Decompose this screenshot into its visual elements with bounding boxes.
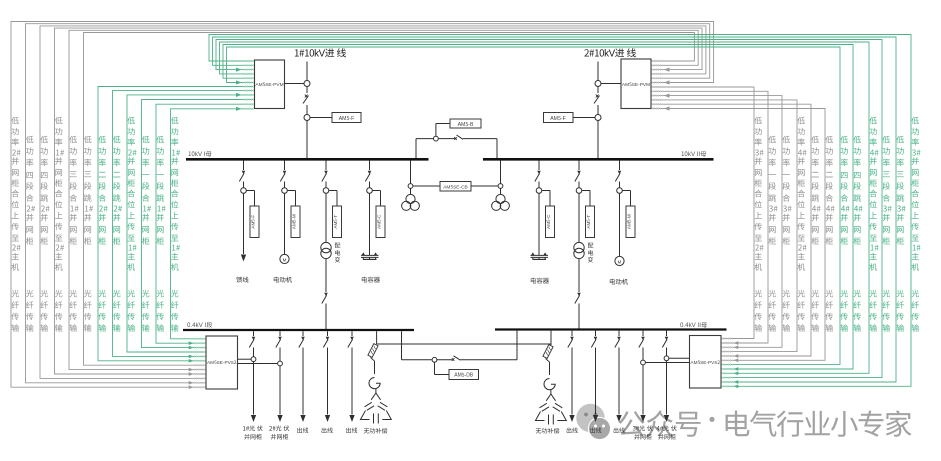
watermark icon bubbles xyxy=(576,404,611,440)
wire net 低功率3#并网柜合位上传至1#主机 xyxy=(209,35,911,389)
svg-text:2#10kV进 线: 2#10kV进 线 xyxy=(584,46,637,60)
bus tie breaker 0.4kV + relay AM5-DB xyxy=(402,331,518,380)
svg-text:AM5SE-PVM: AM5SE-PVM xyxy=(255,81,283,88)
wire with outgoing arrow xyxy=(640,348,645,423)
wire incoming line 2 xyxy=(597,62,599,159)
svg-text:AM5SE-PVS2: AM5SE-PVS2 xyxy=(691,360,721,366)
wire down xyxy=(538,193,540,206)
wire net 低功率二段跳2#并网柜 xyxy=(113,91,254,359)
svg-text:变: 变 xyxy=(588,255,594,264)
wire net 低功率三段跳3#并网柜 xyxy=(213,37,897,384)
feeder 出线 (0.4kV outgoing) xyxy=(346,331,358,434)
CT circle on incoming 2 xyxy=(595,81,621,87)
wire net 低功率一段跳3#并网柜 xyxy=(653,91,769,345)
wire from bus xyxy=(325,161,327,171)
watermark text 公众号·电气行业小专家 xyxy=(617,401,912,444)
breaker QF1 on incoming 1 xyxy=(303,93,311,105)
breaker (moulded case) xyxy=(641,337,645,340)
wire net 低功率2#并网柜合位上传至2#主机 (top run + left drop + bottom run) xyxy=(11,22,714,390)
feeder 出线 (0.4kV outgoing, bus II) xyxy=(590,331,602,435)
net label 低功率一段跳1#并网柜 光纤传输 xyxy=(155,135,166,248)
svg-text:M: M xyxy=(618,259,622,265)
CT junction circle xyxy=(241,188,247,194)
breaker (moulded case) xyxy=(350,337,354,340)
wire from 0.4kV bus xyxy=(666,331,668,336)
net label 低功率2#并网柜合位上传至1#主机 光纤传输 xyxy=(126,116,137,274)
breaker (moulded case) xyxy=(278,337,282,340)
net label 低功率1#并网柜合位上传至2#主机 光纤传输 xyxy=(53,116,64,274)
wire net 低功率二段合2#并网柜 xyxy=(98,87,253,363)
relay box AM5-C xyxy=(372,191,385,238)
relay box AM5-C xyxy=(542,191,555,238)
wire net 低功率1#并网柜合位上传至2#主机 (top run + left drop + bottom run) xyxy=(55,28,703,376)
wire net 低功率四段合2#并网柜 (top run + left drop + bottom run) xyxy=(26,24,710,385)
relay box U1 AM5SE-PVM (1# main) xyxy=(255,60,285,109)
net label 低功率3#并网柜合位上传至1#主机 光纤传输 xyxy=(910,116,921,274)
svg-text:并网柜: 并网柜 xyxy=(658,432,676,441)
relay box AM5-T xyxy=(329,191,342,238)
svg-text:1#10kV进 线: 1#10kV进 线 xyxy=(294,46,347,60)
CT junction circle xyxy=(536,188,542,194)
CT junction circle xyxy=(576,188,582,194)
metering circle + relay AM5-F on incoming 1 xyxy=(304,113,361,123)
net label 低功率3#并网柜合位上传至2#主机 光纤传输 xyxy=(753,116,764,274)
feeder QF6 + capacitor bank C1 电容器 xyxy=(361,161,385,285)
bus tie breaker 10kV + relay AM5-B xyxy=(416,119,497,158)
metering circle + relay AM5-F on incoming 2 xyxy=(544,113,602,123)
net label 低功率一段合3#并网柜 光纤传输 xyxy=(781,135,792,248)
relay box U4 AM5SE-PVS2 (right) xyxy=(690,336,722,389)
net label 低功率四段跳2#并网柜 光纤传输 xyxy=(39,135,50,248)
svg-text:电容器: 电容器 xyxy=(530,276,550,285)
breaker (disconnect switch) xyxy=(239,171,245,188)
svg-text:出线: 出线 xyxy=(346,426,358,435)
wire AM5SE-PVS2 right to 3#/4# PV breakers xyxy=(645,358,689,362)
wire net 低功率四段合4#并网柜 xyxy=(227,47,841,365)
wire down xyxy=(284,193,286,206)
net label 低功率四段跳4#并网柜 光纤传输 xyxy=(852,135,863,248)
net label 低功率一段跳3#并网柜 光纤传输 xyxy=(767,135,778,248)
relay box AM5-F xyxy=(246,191,259,238)
svg-text:·: · xyxy=(700,401,724,436)
wire from 0.4kV bus xyxy=(642,331,644,336)
wire with outgoing arrow xyxy=(664,348,669,423)
wire net 低功率四段跳2#并网柜 (top run + left drop + bottom run) xyxy=(40,26,706,379)
net label 低功率四段合2#并网柜 光纤传输 xyxy=(24,135,35,248)
wire net 低功率3#并网柜合位上传至2#主机 xyxy=(653,87,755,339)
wire with outgoing arrow xyxy=(325,348,330,423)
breaker (moulded case) xyxy=(594,337,598,340)
wire from 0.4kV bus xyxy=(571,331,573,336)
svg-text:无功补偿: 无功补偿 xyxy=(364,426,388,435)
svg-text:0.4kV I段: 0.4kV I段 xyxy=(187,320,212,329)
net label 低功率三段合1#并网柜 光纤传输 xyxy=(68,135,79,248)
net label 低功率二段合2#并网柜 光纤传输 xyxy=(97,135,108,248)
svg-text:电动机: 电动机 xyxy=(609,277,629,286)
feeder QF13 4#光伏并网柜 with junction xyxy=(657,331,677,441)
relay box AM5-M xyxy=(622,191,635,238)
wire net 低功率二段跳4#并网柜 xyxy=(653,104,812,358)
wire from bus xyxy=(243,161,245,171)
net label 低功率三段跳3#并网柜 光纤传输 xyxy=(895,135,906,248)
wire with outgoing arrow xyxy=(251,348,256,423)
wire with outgoing arrow xyxy=(349,348,354,423)
wire AM5SE-PVS2 to 1#/2# PV breakers xyxy=(238,359,278,363)
svg-text:AM5-DB: AM5-DB xyxy=(454,371,474,378)
bus 10kV II xyxy=(483,149,714,159)
wire down xyxy=(369,193,371,206)
svg-text:AM5-T: AM5-T xyxy=(586,215,592,229)
wire with outgoing arrow xyxy=(277,348,282,423)
pin labels AM5SE-PVM U2 right edge xyxy=(652,61,663,109)
net label 低功率三段跳1#并网柜 光纤传输 xyxy=(82,135,93,248)
wire net 低功率三段跳1#并网柜 (top run + left drop + bottom run) xyxy=(84,33,695,366)
wire net 低功率二段合4#并网柜 xyxy=(653,106,826,362)
svg-text:0.4kV II母: 0.4kV II母 xyxy=(680,320,707,329)
svg-text:出线: 出线 xyxy=(613,426,625,435)
wire from 0.4kV bus xyxy=(595,331,597,336)
breaker (moulded case) xyxy=(301,337,305,340)
svg-text:AM5SE-CB: AM5SE-CB xyxy=(443,183,468,190)
wire net 低功率三段合3#并网柜 xyxy=(216,40,882,378)
wire down xyxy=(619,193,621,206)
svg-text:并网柜: 并网柜 xyxy=(634,432,652,441)
svg-text:AM5-T: AM5-T xyxy=(333,215,339,229)
net label 低功率二段跳4#并网柜 光纤传输 xyxy=(810,135,821,248)
breaker (disconnect switch) xyxy=(575,171,581,188)
feeder 出线 (0.4kV outgoing, bus II) xyxy=(613,331,625,435)
svg-text:AM5-C: AM5-C xyxy=(546,214,552,229)
wire down xyxy=(578,193,580,206)
svg-text:10kV II母: 10kV II母 xyxy=(681,149,706,158)
pin labels AM5SE-PVS2 U3 left edge xyxy=(194,339,206,387)
feeder QF7 + capacitor bank C2 电容器 (bus II) xyxy=(530,161,555,286)
svg-text:10kV I母: 10kV I母 xyxy=(188,149,212,158)
svg-text:并网柜: 并网柜 xyxy=(244,432,262,441)
svg-text:AM5-M: AM5-M xyxy=(627,214,633,229)
net label 低功率二段跳2#并网柜 光纤传输 xyxy=(111,135,122,248)
breaker (moulded case) xyxy=(326,337,330,340)
breaker (moulded case) xyxy=(665,337,669,340)
feeder QF9 + motor M2 电动机 (bus II) xyxy=(609,161,635,287)
feeder QF11 2#光伏并网柜 with junction xyxy=(269,331,289,441)
bus 0.4kV II xyxy=(495,320,727,330)
feeder QF3 馈线 (10kV outgoing) xyxy=(236,161,259,285)
net label 低功率四段合4#并网柜 光纤传输 xyxy=(839,135,850,248)
wire net 低功率四段跳4#并网柜 xyxy=(223,45,853,371)
wire net 低功率一段合1#并网柜 xyxy=(142,100,254,350)
svg-text:电动机: 电动机 xyxy=(273,275,293,284)
wire net 低功率4#并网柜合位上传至1#主机 xyxy=(220,42,870,375)
CT junction circle xyxy=(323,188,329,194)
wire from 0.4kV bus xyxy=(253,331,255,336)
svg-text:电容器: 电容器 xyxy=(361,275,381,284)
breaker (moulded case) xyxy=(570,337,574,340)
breaker (disconnect switch) xyxy=(615,171,621,188)
relay box U2 AM5SE-PVM (2# main) xyxy=(621,59,651,109)
CT junction circle xyxy=(617,188,623,194)
net label 低功率2#并网柜合位上传至2#主机 光纤传输 xyxy=(10,116,21,274)
wire with outgoing arrow xyxy=(300,348,305,423)
breaker (disconnect switch) xyxy=(280,171,286,188)
wire with outgoing arrow xyxy=(569,348,574,423)
PT TV1 on bus I with junction xyxy=(402,161,420,211)
svg-text:出线: 出线 xyxy=(297,426,309,435)
svg-text:AM5-B: AM5-B xyxy=(458,121,474,128)
fuse FU2 + reactor + delta capacitor bank 无功补偿 (right) xyxy=(536,331,567,435)
feeder 出线 (0.4kV outgoing) xyxy=(321,331,333,434)
svg-text:AM5-F: AM5-F xyxy=(550,115,566,122)
feeder QF12 3#光伏并网柜 with junction xyxy=(633,331,653,441)
wire from 0.4kV bus xyxy=(327,331,329,336)
svg-text:M: M xyxy=(283,257,287,263)
svg-text:馈线: 馈线 xyxy=(236,275,249,284)
feeder QF8 + transformer T2 配电变 (bus II) xyxy=(574,161,595,329)
wire net 低功率1#并网柜合位上传至1#主机 xyxy=(171,107,254,339)
breaker QF2 on incoming 2 xyxy=(594,93,602,105)
wire down xyxy=(325,193,327,206)
relay box AM5-M xyxy=(287,191,300,238)
CT circle on incoming 1 xyxy=(285,81,311,87)
fuse FU1 + reactor + delta capacitor bank 无功补偿 (left) xyxy=(361,331,552,435)
wire net 低功率一段跳1#并网柜 xyxy=(156,104,253,345)
wire incoming line 1 xyxy=(306,62,308,159)
net label 低功率4#并网柜合位上传至1#主机 光纤传输 xyxy=(868,116,879,274)
relay box U3 AM5SE-PVS2 (left) xyxy=(206,336,238,389)
svg-text:出线: 出线 xyxy=(566,426,578,435)
svg-text:AM5-F: AM5-F xyxy=(251,215,257,229)
feeder QF10 1#光伏并网柜 with junction xyxy=(243,331,263,441)
net label 低功率4#并网柜合位上传至2#主机 光纤传输 xyxy=(796,116,807,274)
bus 0.4kV I xyxy=(183,320,414,330)
wire from 0.4kV bus xyxy=(618,331,620,336)
pin labels AM5SE-PVM U1 left edge xyxy=(243,61,255,109)
net label 低功率1#并网柜合位上传至1#主机 光纤传输 xyxy=(169,116,180,274)
svg-text:AM5SE-PVS2: AM5SE-PVS2 xyxy=(207,360,237,366)
breaker (moulded case) xyxy=(617,337,621,340)
feeder QF5 + transformer T1 配电变 xyxy=(321,161,342,330)
CT junction circle xyxy=(367,188,373,194)
PT TV2 on bus II with junction xyxy=(492,161,510,211)
wire from bus xyxy=(538,161,540,171)
relay AM5SE-CB xyxy=(413,182,498,192)
wire net 低功率三段合1#并网柜 (top run + left drop + bottom run) xyxy=(69,30,698,371)
breaker (disconnect switch) xyxy=(365,171,371,188)
wire from 0.4kV bus xyxy=(302,331,304,336)
wire with outgoing arrow xyxy=(616,348,621,423)
CT junction circle xyxy=(282,188,288,194)
feeder 出线 (0.4kV outgoing) xyxy=(297,331,309,434)
svg-text:AM5-F: AM5-F xyxy=(339,115,355,122)
svg-text:出线: 出线 xyxy=(321,426,333,435)
wire with outgoing arrow xyxy=(593,348,598,423)
wire from 0.4kV bus xyxy=(351,331,353,336)
wire from 0.4kV bus xyxy=(279,331,281,336)
wire net 低功率2#并网柜合位上传至1#主机 xyxy=(127,93,253,352)
svg-text:AM5-M: AM5-M xyxy=(292,214,298,229)
breaker (disconnect switch) xyxy=(322,171,328,188)
wire from bus xyxy=(619,161,621,171)
wire net 低功率一段合3#并网柜 xyxy=(653,94,783,350)
wire from bus xyxy=(369,161,371,171)
svg-text:出线: 出线 xyxy=(590,426,602,435)
svg-text:并网柜: 并网柜 xyxy=(271,432,289,441)
svg-text:无功补偿: 无功补偿 xyxy=(536,426,560,435)
svg-text:电气行业小专家: 电气行业小专家 xyxy=(722,403,912,444)
feeder 出线 (0.4kV outgoing, bus II) xyxy=(566,331,578,435)
wire net 低功率4#并网柜合位上传至2#主机 xyxy=(653,100,798,352)
breaker (moulded case) xyxy=(252,337,256,340)
net label 低功率二段合4#并网柜 光纤传输 xyxy=(824,135,835,248)
wire down xyxy=(243,193,245,206)
svg-text:AM5-C: AM5-C xyxy=(377,214,383,229)
wire from bus xyxy=(578,161,580,171)
svg-text:变: 变 xyxy=(335,255,341,264)
feeder QF4 + motor M1 电动机 xyxy=(273,161,300,285)
pin labels AM5SE-PVS2 U4 right edge xyxy=(722,339,733,387)
svg-text:AM5SE-PVM: AM5SE-PVM xyxy=(622,81,650,88)
relay box AM5-T xyxy=(582,191,595,238)
bus 10kV I xyxy=(186,149,429,159)
breaker (disconnect switch) xyxy=(535,171,541,188)
net label 低功率三段合3#并网柜 光纤传输 xyxy=(881,135,892,248)
net label 低功率一段合1#并网柜 光纤传输 xyxy=(140,135,151,248)
wire from bus xyxy=(284,161,286,171)
